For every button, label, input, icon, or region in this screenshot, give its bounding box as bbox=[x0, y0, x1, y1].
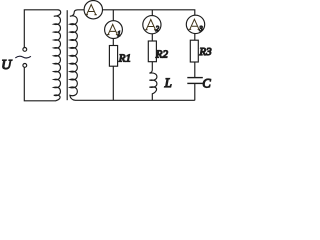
wire: R1 to bottom bus bbox=[112, 66, 114, 100]
svg-text:1: 1 bbox=[117, 31, 120, 38]
transformer core bbox=[66, 10, 68, 100]
wire: R3 to capacitor bbox=[194, 62, 196, 77]
svg-text:U: U bbox=[1, 58, 12, 73]
wire: branch1 drop from bus to A1 bbox=[112, 10, 114, 21]
svg-text:R1: R1 bbox=[118, 53, 131, 65]
wire: A1 to R1 bbox=[112, 39, 114, 46]
wire: A3 to R3 bbox=[194, 34, 196, 41]
svg-text:L: L bbox=[164, 75, 172, 90]
resistor R3 bbox=[190, 40, 198, 62]
wire: branch2 drop from bus to A2 bbox=[151, 10, 153, 16]
source terminal (bottom circle) bbox=[23, 64, 27, 68]
source terminal (top circle) bbox=[23, 48, 27, 52]
transformer secondary winding P2 + wire to ammeter A bbox=[70, 10, 195, 101]
svg-text:C: C bbox=[202, 77, 211, 91]
resistor R2 bbox=[148, 41, 156, 62]
svg-text:R2: R2 bbox=[155, 48, 169, 60]
ammeter A2 bbox=[143, 16, 161, 34]
wire: capacitor to bottom bus bbox=[194, 84, 196, 100]
wire: bottom left from source down to primary coil bottom bbox=[24, 67, 56, 100]
svg-text:3: 3 bbox=[198, 26, 203, 33]
AC tilde symbol bbox=[15, 56, 31, 58]
resistor R1 bbox=[109, 46, 117, 67]
inductor L bbox=[149, 62, 157, 101]
capacitor C top plate bbox=[187, 77, 203, 79]
wire: left vertical + top horizontal to primary coil bbox=[24, 10, 58, 48]
capacitor C bottom plate bbox=[187, 82, 203, 84]
wire: A2 to R2 bbox=[151, 34, 153, 41]
ammeter A3 bbox=[186, 15, 204, 33]
ammeter A1 bbox=[105, 21, 123, 39]
ammeter A bbox=[84, 1, 102, 19]
svg-text:2: 2 bbox=[156, 26, 160, 33]
svg-text:R3: R3 bbox=[198, 46, 212, 58]
transformer primary winding P1 bbox=[54, 10, 61, 101]
wire: top bus from A to right corner, down to A3 bbox=[103, 10, 195, 16]
